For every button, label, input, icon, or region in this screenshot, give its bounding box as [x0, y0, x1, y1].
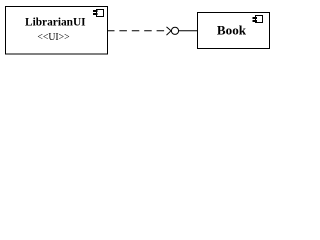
svg-text:LibrarianUI: LibrarianUI: [25, 15, 86, 29]
svg-text:<<UI>>: <<UI>>: [37, 31, 69, 43]
svg-text:Book: Book: [217, 23, 247, 38]
